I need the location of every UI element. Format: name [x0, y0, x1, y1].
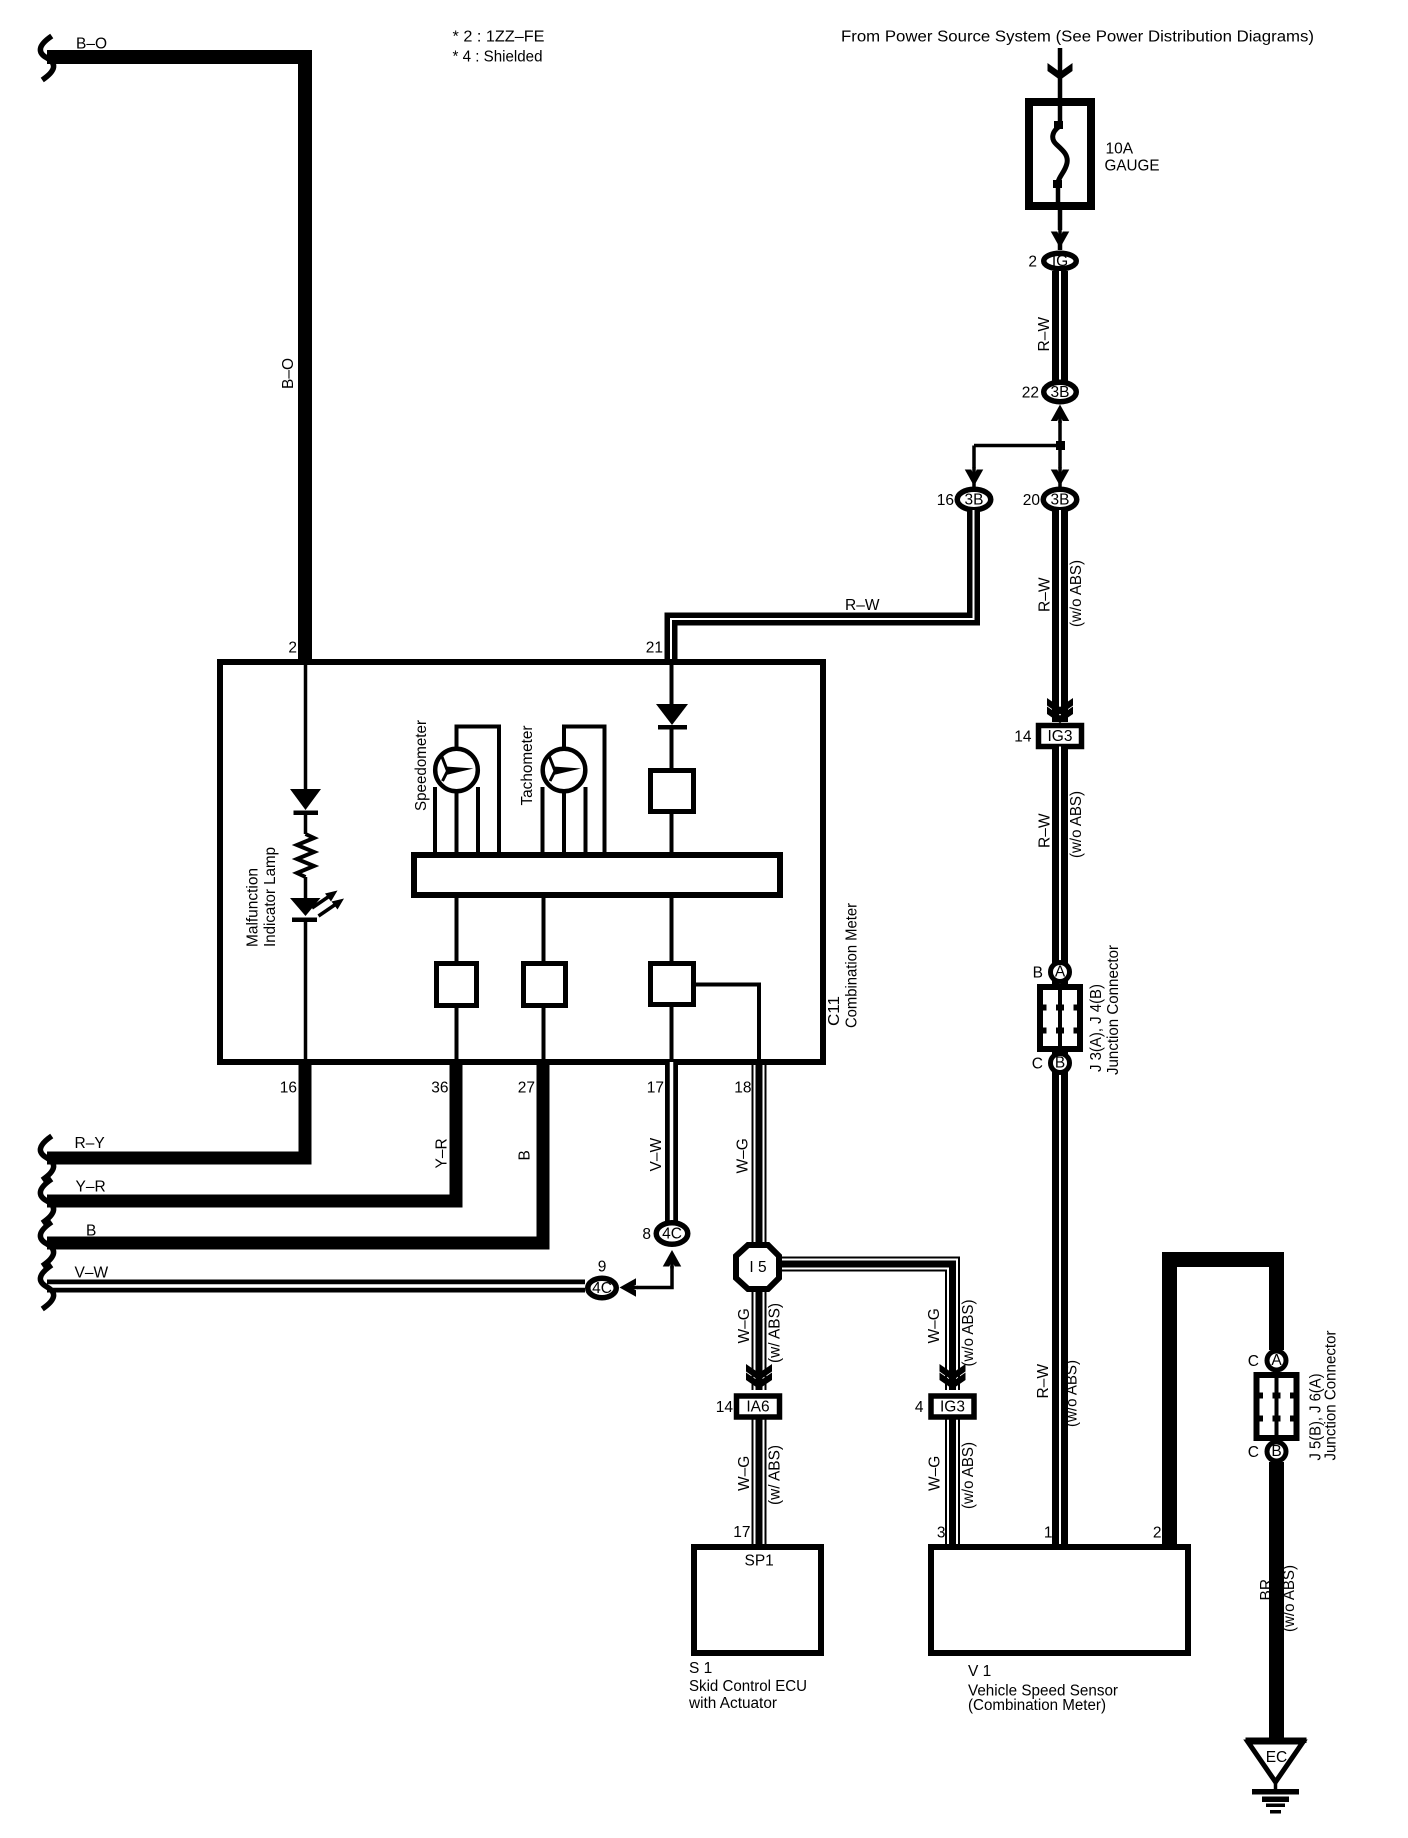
svg-text:IG3: IG3 [940, 1399, 965, 1416]
svg-text:Y–R: Y–R [434, 1138, 451, 1168]
svg-text:W–G: W–G [735, 1138, 752, 1173]
svg-text:B: B [1055, 1055, 1065, 1072]
svg-text:3B: 3B [965, 491, 984, 508]
svg-text:16: 16 [280, 1080, 297, 1097]
svg-text:I 5: I 5 [749, 1259, 766, 1276]
svg-text:Tachometer: Tachometer [519, 726, 536, 806]
svg-text:SP1: SP1 [745, 1553, 774, 1570]
svg-text:C: C [1032, 1056, 1043, 1073]
svg-text:14: 14 [1014, 729, 1032, 746]
svg-text:R–W: R–W [845, 597, 880, 614]
svg-text:* 2 : 1ZZ–FE: * 2 : 1ZZ–FE [453, 29, 545, 46]
svg-text:W–G: W–G [736, 1456, 753, 1491]
svg-text:9: 9 [598, 1259, 607, 1276]
svg-text:From Power Source System (See: From Power Source System (See Power Dist… [841, 29, 1314, 46]
svg-text:18: 18 [734, 1080, 751, 1097]
svg-text:(w/ ABS): (w/ ABS) [767, 1303, 784, 1363]
svg-text:BR: BR [1258, 1579, 1275, 1601]
svg-text:(w/o ABS): (w/o ABS) [960, 1442, 977, 1509]
svg-text:(Combination Meter): (Combination Meter) [968, 1697, 1106, 1714]
svg-text:W–G: W–G [736, 1308, 753, 1343]
svg-text:GAUGE: GAUGE [1105, 158, 1160, 175]
svg-text:17: 17 [733, 1524, 750, 1541]
svg-text:4C: 4C [662, 1225, 682, 1242]
svg-text:J 3(A), J 4(B): J 3(A), J 4(B) [1088, 984, 1105, 1072]
svg-text:Speedometer: Speedometer [413, 720, 430, 811]
svg-text:IG: IG [1052, 253, 1068, 270]
svg-text:R–W: R–W [1037, 577, 1054, 612]
svg-text:Indicator Lamp: Indicator Lamp [262, 847, 279, 947]
svg-text:R–W: R–W [1035, 1364, 1052, 1399]
svg-text:Combination Meter: Combination Meter [844, 903, 861, 1028]
svg-text:S 1: S 1 [689, 1660, 712, 1677]
svg-text:27: 27 [518, 1080, 535, 1097]
svg-text:36: 36 [431, 1080, 448, 1097]
svg-text:(w/o ABS): (w/o ABS) [1064, 1360, 1081, 1427]
svg-text:20: 20 [1023, 492, 1041, 509]
svg-text:R–Y: R–Y [75, 1135, 105, 1152]
svg-text:17: 17 [647, 1080, 664, 1097]
svg-text:W–G: W–G [926, 1308, 943, 1343]
svg-text:(w/o ABS): (w/o ABS) [1068, 560, 1085, 627]
svg-text:4: 4 [915, 1399, 924, 1416]
svg-text:B: B [517, 1150, 534, 1160]
svg-text:3B: 3B [1051, 384, 1070, 401]
svg-text:Malfunction: Malfunction [245, 868, 262, 947]
svg-text:V 1: V 1 [968, 1663, 991, 1680]
svg-text:(w/o ABS): (w/o ABS) [1068, 791, 1085, 858]
svg-text:A: A [1271, 1352, 1282, 1369]
svg-text:14: 14 [716, 1399, 734, 1416]
svg-text:4C: 4C [592, 1280, 612, 1297]
svg-text:10A: 10A [1106, 141, 1134, 158]
svg-text:22: 22 [1022, 385, 1039, 402]
svg-text:V–W: V–W [75, 1265, 109, 1282]
svg-text:8: 8 [642, 1226, 651, 1243]
svg-text:IA6: IA6 [746, 1399, 769, 1416]
svg-text:C: C [1248, 1353, 1259, 1370]
svg-text:B: B [86, 1223, 96, 1240]
svg-text:2: 2 [288, 640, 297, 657]
svg-text:21: 21 [646, 640, 663, 657]
svg-text:R–W: R–W [1037, 813, 1054, 848]
svg-text:2: 2 [1028, 254, 1037, 271]
svg-text:Y–R: Y–R [76, 1179, 106, 1196]
svg-text:* 4 : Shielded: * 4 : Shielded [453, 49, 543, 66]
svg-text:C: C [1248, 1444, 1259, 1461]
svg-text:with Actuator: with Actuator [688, 1695, 777, 1712]
svg-text:R–W: R–W [1036, 317, 1053, 352]
svg-text:B–O: B–O [76, 36, 107, 53]
svg-text:(w/ ABS): (w/ ABS) [767, 1445, 784, 1505]
svg-text:(w/o ABS): (w/o ABS) [1281, 1565, 1298, 1632]
svg-text:Skid Control ECU: Skid Control ECU [689, 1678, 807, 1695]
svg-text:W–G: W–G [927, 1456, 944, 1491]
svg-text:A: A [1055, 964, 1066, 981]
svg-text:1: 1 [1044, 1525, 1053, 1542]
svg-text:IG3: IG3 [1048, 728, 1073, 745]
svg-text:B–O: B–O [280, 358, 297, 389]
svg-text:3: 3 [937, 1525, 946, 1542]
svg-text:2: 2 [1153, 1525, 1162, 1542]
svg-text:3B: 3B [1051, 491, 1070, 508]
svg-text:C11: C11 [826, 996, 843, 1026]
svg-text:(w/o ABS): (w/o ABS) [960, 1300, 977, 1367]
svg-text:V–W: V–W [648, 1138, 665, 1172]
svg-text:EC: EC [1266, 1749, 1288, 1766]
svg-text:Junction Connector: Junction Connector [1105, 945, 1122, 1075]
svg-text:B: B [1271, 1443, 1281, 1460]
svg-text:B: B [1033, 965, 1043, 982]
svg-text:16: 16 [937, 492, 954, 509]
svg-text:Junction Connector: Junction Connector [1323, 1331, 1340, 1461]
